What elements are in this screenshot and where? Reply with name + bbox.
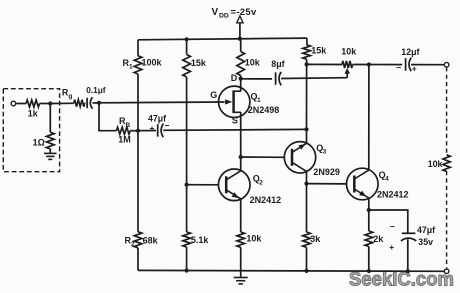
output terminal top — [444, 62, 449, 67]
junction dot Q3 collector node — [304, 182, 308, 186]
svg-text:5.1k: 5.1k — [191, 235, 210, 245]
junction dot input node — [48, 101, 52, 105]
wire 3k to bottom rail — [306, 247, 308, 271]
wire 10k drain branch top — [240, 39, 242, 52]
resistor 10k load — [428, 155, 451, 172]
svg-text:B: B — [125, 122, 130, 129]
wire R1 to node X — [137, 74, 139, 131]
resistor R2 68k — [125, 232, 159, 248]
capacitor 47μf 35v — [389, 221, 435, 252]
svg-text:1k: 1k — [28, 108, 39, 118]
wire bottom rail — [138, 269, 444, 272]
svg-text:D: D — [231, 73, 238, 83]
output terminal bottom — [444, 269, 449, 274]
svg-text:V: V — [212, 7, 219, 18]
svg-text:1: 1 — [129, 63, 133, 70]
wire drain node to 8uf — [241, 78, 272, 80]
svg-text:−: − — [390, 221, 395, 231]
node VDD supply arrow and label — [212, 7, 257, 39]
resistor 2k — [365, 210, 384, 247]
resistor 3k — [303, 184, 322, 248]
wire R2 to bottom rail — [137, 248, 139, 271]
resistor 5.1k — [183, 232, 210, 247]
wire 12uf to output terminal — [411, 64, 444, 66]
svg-text:1M: 1M — [118, 135, 131, 145]
svg-text:+: + — [389, 242, 394, 252]
wire dashed load top — [446, 67, 448, 155]
wire node X to R2 — [137, 131, 139, 232]
wire 0.1uf to gate node — [93, 102, 100, 104]
resistor R1 100k — [123, 56, 163, 74]
wire pot to Q4 collector node — [353, 64, 369, 66]
svg-text:DD: DD — [219, 13, 229, 20]
capacitor 47μf bias — [138, 113, 170, 137]
svg-text:2N2412: 2N2412 — [377, 189, 409, 199]
wire 8uf to pot wiper — [281, 77, 347, 80]
wire node to 5.1k — [186, 185, 188, 232]
svg-text:S: S — [232, 116, 238, 126]
svg-text:1Ω: 1Ω — [33, 137, 45, 147]
junction dot bottom rail 2k — [367, 269, 371, 273]
junction dot 47uf line at Q3 emitter column — [304, 127, 308, 131]
wire right 15k branch top — [306, 38, 308, 45]
wire dashed load bottom — [446, 171, 448, 268]
wire Q4 emitter lead — [368, 198, 370, 210]
svg-text:10k: 10k — [245, 58, 261, 68]
junction dot Q1 drain node — [239, 77, 243, 81]
wire gate line — [99, 101, 225, 104]
transistor Q3 2N929 — [284, 142, 340, 178]
svg-text:15k: 15k — [311, 45, 327, 55]
svg-text:2k: 2k — [373, 234, 384, 244]
svg-text:47μf: 47μf — [148, 113, 166, 123]
junction dot after coupling cap — [97, 101, 101, 105]
wire node to 1ohm — [49, 104, 51, 133]
resistor 10k Q2 emitter — [237, 232, 263, 247]
svg-text:8μf: 8μf — [271, 59, 284, 69]
svg-text:35v: 35v — [418, 237, 433, 247]
wire Q1 source lead — [240, 112, 242, 157]
wire Q3 collector lead — [306, 171, 308, 183]
wire 47uf to Q3 emitter line — [163, 128, 306, 131]
svg-text:2: 2 — [131, 241, 135, 248]
wire Q3 collector to Q4 base — [307, 183, 347, 185]
input terminal — [11, 101, 16, 106]
wire top supply rail — [138, 38, 307, 40]
transistor Q1 2N2498 JFET — [210, 73, 279, 126]
svg-text:47μf: 47μf — [417, 225, 435, 235]
svg-text:−: − — [396, 62, 401, 72]
svg-text:3: 3 — [323, 148, 327, 155]
wire Q4 emitter to 47uf — [369, 210, 408, 233]
svg-text:−: − — [165, 121, 170, 131]
wire output node down to 47uf line — [306, 64, 308, 129]
wire Q3 base line — [241, 156, 285, 158]
wire 5.1k to bottom rail — [186, 247, 188, 271]
svg-text:g: g — [68, 93, 72, 100]
junction dot Q2 base node — [185, 183, 189, 187]
wire 2k to bottom rail — [368, 247, 370, 272]
svg-text:15k: 15k — [191, 58, 207, 68]
junction dot Q4 collector node — [367, 62, 371, 66]
junction dot top rail at VDD — [238, 37, 242, 41]
junction dot bottom rail 5.1k — [185, 268, 189, 272]
junction dot output line left — [305, 62, 309, 66]
wire 15k to Q2 base node — [186, 77, 188, 185]
wire to 12uf — [369, 64, 402, 66]
wire Q2 emitter lead — [240, 199, 242, 232]
svg-text:12μf: 12μf — [401, 47, 419, 57]
resistor 15k right — [303, 45, 328, 59]
wire 10k to drain node — [240, 76, 242, 79]
wire Q1 drain lead — [240, 79, 242, 92]
wire 10k to bottom rail — [240, 247, 242, 270]
junction dot Q4 emitter node — [367, 208, 371, 212]
wire R1 branch top — [137, 40, 139, 56]
potentiometer 10k — [341, 46, 357, 68]
capacitor 12μf — [396, 47, 419, 74]
transistor Q2 2N2412 — [218, 169, 281, 205]
node X junction dot — [136, 129, 140, 133]
svg-text:1: 1 — [257, 97, 261, 104]
wire 1k to node — [40, 103, 51, 105]
svg-text:10k: 10k — [428, 159, 443, 169]
svg-text:0.1μf: 0.1μf — [86, 85, 106, 95]
input source dashed box — [3, 89, 59, 172]
wire input node to Rg — [50, 102, 74, 104]
wire Q2 collector lead — [240, 157, 242, 171]
wire output node to pot — [307, 63, 342, 65]
svg-text:68k: 68k — [143, 235, 159, 245]
wire terminal to 1k — [16, 103, 26, 105]
svg-text:G: G — [210, 90, 217, 100]
ground input box — [44, 153, 57, 159]
pot wiper arrow — [345, 68, 350, 78]
resistor RB 1M — [116, 116, 130, 144]
wire Q2 base line — [187, 184, 219, 186]
wire Q4 collector lead — [368, 65, 370, 171]
resistor Rg — [62, 87, 85, 106]
junction dot top rail at 15k — [185, 37, 189, 41]
wire 47uf node to Q3 emitter — [306, 129, 308, 143]
resistor 1k — [26, 100, 39, 118]
wire Rg to 0.1uf — [84, 102, 87, 104]
watermark SeekIC.com — [349, 269, 454, 291]
capacitor 0.1μf — [86, 85, 106, 109]
wire 47uf to bottom rail — [407, 239, 409, 271]
wire 1ohm to ground — [49, 149, 51, 153]
resistor 15k left — [183, 55, 207, 78]
junction dot bottom rail 3k — [304, 269, 308, 273]
resistor 1Ω — [33, 132, 55, 149]
svg-text:2N929: 2N929 — [313, 167, 340, 177]
svg-text:4: 4 — [385, 175, 389, 182]
wire 15k branch top — [186, 39, 188, 54]
transistor Q4 2N2412 second — [347, 168, 409, 200]
junction dot bottom rail 47uf — [406, 269, 410, 273]
svg-text:10k: 10k — [246, 233, 262, 243]
capacitor 8μf — [271, 59, 284, 86]
wire 15k right to output node — [306, 59, 308, 64]
ground main — [234, 271, 248, 284]
svg-text:+: + — [150, 123, 155, 133]
svg-text:10k: 10k — [341, 46, 357, 56]
wire gate node down to RB — [99, 103, 116, 131]
svg-text:100k: 100k — [142, 58, 163, 68]
resistor 10k drain — [237, 52, 261, 76]
svg-text:2N2498: 2N2498 — [248, 105, 280, 115]
svg-text:3k: 3k — [310, 234, 321, 244]
svg-text:2: 2 — [259, 179, 263, 186]
svg-text:=-25v: =-25v — [231, 7, 257, 18]
svg-text:2N2412: 2N2412 — [250, 195, 282, 205]
wire RB to node X — [130, 130, 138, 132]
junction dot Q1 source node — [239, 155, 243, 159]
